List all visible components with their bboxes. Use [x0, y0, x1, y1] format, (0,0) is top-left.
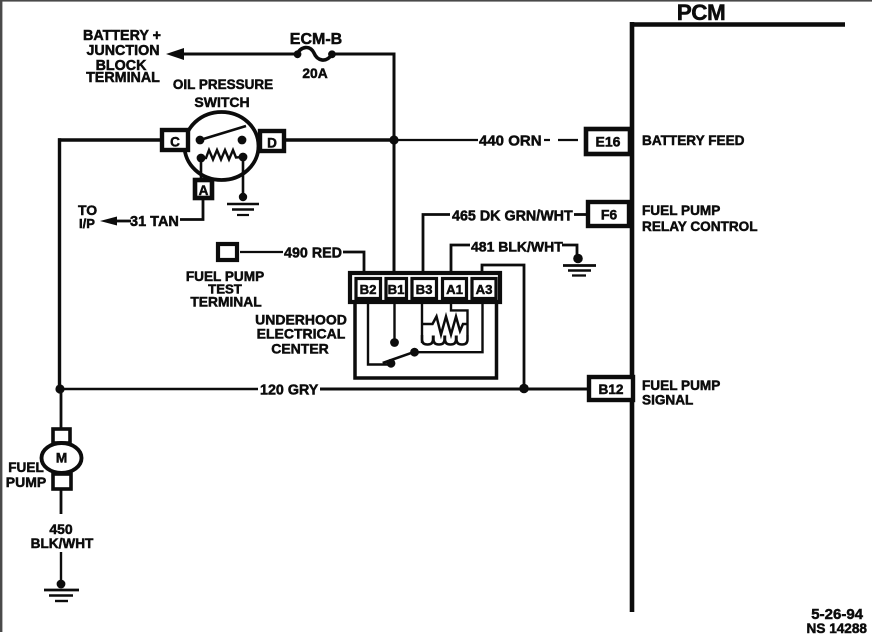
connector pin E16: [586, 129, 630, 154]
ground at fuel pump: [44, 580, 79, 601]
wire terminal A to 31 TAN: [180, 197, 203, 220]
svg-text:BATTERY FEED: BATTERY FEED: [642, 133, 745, 148]
wire 465 DK GRN/WHT: [423, 215, 450, 275]
terminal A3: [472, 279, 496, 299]
svg-text:E16: E16: [596, 134, 621, 150]
PCM box: [630, 22, 845, 612]
oil pressure switch body: [185, 112, 259, 180]
wire pin to terminal A: [200, 158, 203, 180]
terminal D: [260, 131, 284, 151]
wire fuse to corner: [333, 53, 394, 56]
arrow to I/P: [100, 217, 117, 226]
terminal C: [162, 130, 188, 150]
svg-text:A3: A3: [476, 282, 493, 297]
wire left horizontal to C: [58, 138, 163, 141]
relay coil: [422, 317, 468, 345]
wire 120 GRY left segment: [59, 388, 258, 391]
fuse ECM-B 20A: [290, 31, 342, 81]
terminal A: [195, 180, 212, 198]
node junction dot on 120 GRY: [519, 384, 529, 394]
svg-text:BATTERY +: BATTERY +: [83, 28, 161, 44]
svg-text:B2: B2: [360, 282, 377, 297]
svg-text:ECM-B: ECM-B: [290, 31, 342, 48]
svg-text:JUNCTION: JUNCTION: [86, 43, 159, 59]
terminal B3: [412, 279, 437, 299]
svg-text:450: 450: [49, 521, 73, 537]
node fuel pump junction dot: [55, 384, 64, 393]
connector pin F6: [588, 202, 629, 226]
svg-text:D: D: [267, 136, 277, 151]
svg-text:B12: B12: [599, 382, 624, 397]
svg-text:RELAY CONTROL: RELAY CONTROL: [642, 219, 758, 234]
svg-text:440 ORN: 440 ORN: [479, 133, 542, 150]
svg-text:A1: A1: [446, 282, 463, 297]
svg-text:I/P: I/P: [79, 216, 95, 231]
svg-text:TERMINAL: TERMINAL: [86, 70, 160, 86]
svg-text:20A: 20A: [302, 66, 327, 81]
svg-text:PCM: PCM: [677, 0, 726, 25]
wire B1 to relay switch contact: [393, 302, 395, 340]
svg-text:BLK/WHT: BLK/WHT: [31, 536, 94, 551]
svg-text:CENTER: CENTER: [271, 341, 329, 357]
ground at oil pressure switch: [227, 193, 259, 215]
svg-text:F6: F6: [601, 207, 618, 223]
wire 490 RED: [240, 251, 283, 253]
relay blade pivot: [387, 359, 396, 368]
node junction dot on 440 ORN: [389, 135, 398, 144]
svg-text:31 TAN: 31 TAN: [130, 214, 179, 230]
svg-text:ELECTRICAL: ELECTRICAL: [257, 326, 346, 342]
ground at 481 BLK/WHT: [563, 254, 596, 276]
svg-text:FUEL PUMP: FUEL PUMP: [642, 203, 720, 218]
wire 450 BLK/WHT: [60, 489, 63, 514]
svg-text:FUEL PUMP: FUEL PUMP: [642, 378, 720, 393]
terminal B2: [356, 279, 381, 299]
wire arrow to fuse: [182, 53, 299, 56]
svg-text:TERMINAL: TERMINAL: [190, 295, 261, 310]
wire left vertical down to fuel pump: [58, 138, 61, 389]
svg-text:490 RED: 490 RED: [284, 246, 342, 262]
svg-text:SWITCH: SWITCH: [194, 94, 249, 110]
relay movable contact: [410, 348, 419, 357]
svg-text:B3: B3: [416, 282, 433, 297]
sender resistor inside switch: [201, 150, 243, 160]
svg-text:C: C: [170, 135, 180, 150]
switch blade (open): [200, 126, 246, 140]
wire D pin down to ground: [242, 157, 245, 198]
terminal strip outer box: [350, 273, 500, 302]
connector pin B12: [589, 377, 633, 400]
svg-text:FUEL: FUEL: [8, 460, 44, 475]
svg-text:B1: B1: [388, 282, 405, 297]
svg-text:465 DK GRN/WHT: 465 DK GRN/WHT: [452, 209, 573, 225]
wire 440 ORN: [284, 138, 398, 141]
svg-text:A: A: [199, 183, 209, 198]
switch contact pins: [196, 136, 205, 145]
svg-text:SIGNAL: SIGNAL: [642, 393, 693, 408]
wire B3 down to coil: [421, 302, 423, 343]
relay blade: [383, 352, 415, 363]
svg-text:120 GRY: 120 GRY: [260, 383, 319, 399]
wire A3 up over to 120 GRY junction: [482, 265, 524, 388]
wire 120 GRY right segment to B12: [320, 388, 590, 391]
arrow to battery junction block: [166, 48, 184, 60]
svg-text:OIL PRESSURE: OIL PRESSURE: [173, 77, 273, 92]
wire B2 to relay blade pivot: [368, 302, 388, 365]
relay fixed contact (B1): [390, 338, 399, 347]
svg-text:481 BLK/WHT: 481 BLK/WHT: [471, 239, 563, 255]
wire vertical fuse corner down to B1: [393, 53, 396, 276]
fuel pump motor M: [42, 429, 82, 489]
svg-text:M: M: [56, 451, 67, 466]
terminal B1: [386, 279, 407, 299]
underhood electrical center box: [355, 276, 497, 378]
svg-text:NS 14288: NS 14288: [807, 621, 868, 636]
scan border top: [0, 0, 872, 2]
svg-text:PUMP: PUMP: [6, 474, 46, 490]
terminal A1: [443, 279, 467, 299]
wire contact to A3: [415, 302, 483, 352]
wire A1 down to coil: [451, 302, 468, 335]
wire 481 BLK/WHT: [451, 245, 470, 274]
wire to fuel pump motor: [60, 389, 63, 431]
node battery junction terminal label: [83, 28, 161, 86]
fuel pump test terminal: [218, 244, 237, 260]
